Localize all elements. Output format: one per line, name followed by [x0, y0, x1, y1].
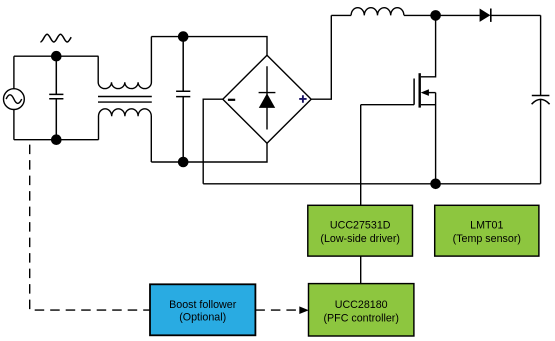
AC source sine symbol — [6, 95, 22, 104]
capacitor C2 — [176, 37, 190, 162]
wire bottom rail section2 — [151, 143, 267, 162]
common-mode choke T1 core — [98, 97, 152, 103]
transistor Q1 channel — [419, 73, 421, 107]
arrowhead into PFC controller — [299, 306, 309, 314]
box LMT01 temp sensor — [435, 205, 539, 256]
wire driver to controller — [360, 256, 362, 284]
wire top rail section2 — [151, 37, 267, 56]
wire ground rail — [203, 183, 540, 185]
transistor Q1 body arrow head — [421, 89, 429, 96]
wire AC source vertical — [13, 56, 15, 140]
diode D1 cathode bar — [490, 9, 492, 22]
wire bridge positive output — [311, 15, 331, 99]
wire bottom rail section1 — [14, 139, 99, 141]
bridge plus label — [299, 95, 306, 103]
transistor Q1 source vertical wire — [435, 93, 437, 184]
transistor Q1 gate lead — [361, 104, 414, 106]
node switch bottom junction — [430, 179, 441, 190]
capacitor C3 output — [532, 96, 550, 105]
svg-text:LMT01: LMT01 — [470, 219, 503, 231]
wire bridge negative output — [203, 99, 223, 184]
wire top rail right — [331, 14, 540, 16]
AC waveform squiggle — [40, 34, 71, 42]
node input bottom junction — [51, 134, 62, 145]
svg-text:UCC28180: UCC28180 — [335, 299, 388, 311]
transistor Q1 body arrow lead — [428, 92, 436, 94]
diode D1 triangle — [480, 9, 491, 22]
AC source V1 — [4, 89, 25, 110]
node input top junction — [51, 51, 62, 62]
inductor L1 boost — [351, 8, 404, 16]
common-mode choke T1 upper winding — [98, 37, 151, 89]
box UCC28180 PFC controller — [309, 284, 414, 336]
svg-text:UCC27531D: UCC27531D — [330, 219, 391, 231]
box boost follower optional — [150, 284, 255, 335]
svg-text:Boost follower: Boost follower — [169, 299, 237, 311]
wire gate to driver — [360, 105, 362, 206]
node filter bottom junction — [178, 157, 189, 168]
transistor Q1 drain wire — [421, 15, 436, 76]
bridge rectifier BR1 — [223, 55, 311, 143]
transistor Q1 gate bar — [413, 79, 415, 105]
common-mode choke T1 lower winding — [99, 109, 152, 162]
dashed wire boost follower to controller — [255, 309, 299, 311]
svg-text:(Optional): (Optional) — [179, 312, 226, 324]
box UCC27531D low-side driver — [308, 205, 413, 256]
capacitor C1 — [49, 56, 63, 140]
bridge internal diode — [259, 66, 276, 129]
wire output right edge — [540, 15, 542, 183]
transistor Q1 source lead — [421, 104, 436, 106]
node filter top junction — [178, 31, 189, 42]
svg-text:(Temp sensor): (Temp sensor) — [453, 233, 521, 245]
dashed wire from AC neutral — [30, 140, 150, 310]
bridge internal diode triangle — [259, 93, 275, 108]
svg-text:(PFC controller): (PFC controller) — [323, 312, 398, 324]
svg-text:(Low-side driver): (Low-side driver) — [320, 233, 400, 245]
node switch top junction — [430, 10, 441, 21]
wire top rail section1 — [14, 55, 99, 57]
bridge minus label — [228, 99, 235, 101]
